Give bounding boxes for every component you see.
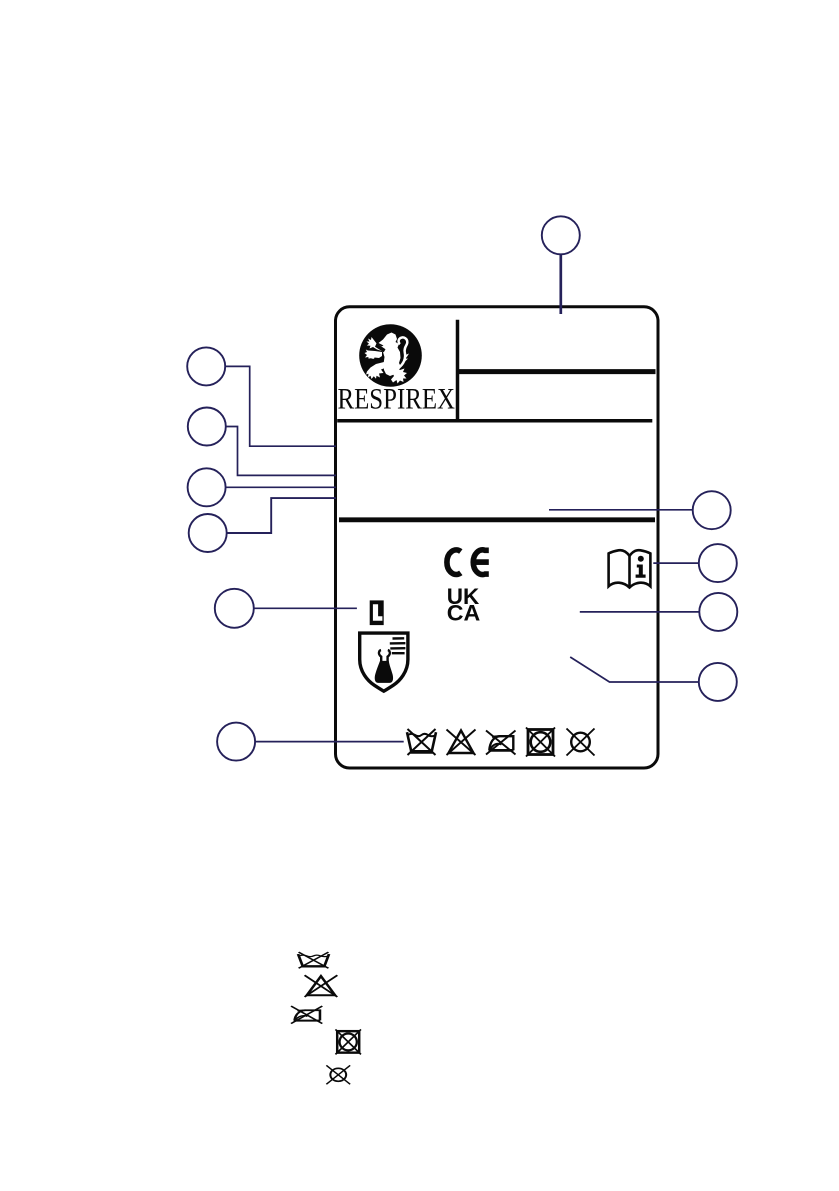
- bottom legend: do not tumble dry: [335, 1029, 361, 1054]
- callout line left 4: [227, 498, 336, 533]
- bottom legend: do not dry clean: [326, 1065, 350, 1084]
- booklet i dot: [638, 556, 644, 562]
- care symbols row inside label: [407, 729, 436, 755]
- horizontal divider 3 (full width): [339, 517, 655, 522]
- callout line right 1: [549, 509, 693, 511]
- callout circle top: [542, 216, 580, 254]
- chemical protection shield pictogram: [360, 633, 408, 691]
- vertical divider right of logo: [456, 320, 460, 423]
- callout circle left 6 (care row): [217, 723, 255, 761]
- CE mark: C: [447, 550, 461, 575]
- Respirex logo black roundel: [359, 324, 422, 387]
- callout circle left 5 (size): [215, 589, 254, 628]
- flask neck left: [379, 650, 381, 661]
- callout circle left 3: [188, 468, 226, 506]
- label outline (rounded rectangle): [336, 307, 659, 768]
- flask neck right: [388, 650, 390, 661]
- callout line left 2: [226, 427, 336, 476]
- consult instructions booklet icon: [609, 550, 651, 587]
- horizontal divider 1 (upper right cell): [458, 369, 656, 374]
- callout line left 1: [225, 366, 336, 446]
- booklet i stem: [636, 565, 646, 578]
- callout circle right 2: [699, 544, 737, 582]
- spray lines: [393, 637, 405, 640]
- callout circle right 4: [699, 663, 737, 701]
- Respirex lion rampant (white): [365, 333, 410, 384]
- bottom legend: do not iron: [291, 1006, 322, 1024]
- callout line left 6: [255, 741, 404, 743]
- callout line right 2: [653, 562, 699, 564]
- callout circle right 3: [699, 593, 737, 631]
- CE mark: E: [473, 550, 489, 575]
- callout circle left 2: [188, 408, 226, 446]
- flask body: [375, 661, 393, 683]
- horizontal divider 2 (full width): [337, 419, 652, 423]
- callout line left 3: [226, 486, 336, 488]
- callout circle left 4: [189, 514, 227, 552]
- callout circle right 1: [693, 491, 731, 529]
- svg-text:RESPIREX: RESPIREX: [338, 384, 456, 416]
- callout line right 4: [570, 657, 699, 682]
- callout line top: [559, 254, 562, 314]
- bottom legend: do not wash: [298, 952, 329, 968]
- callout line left 5: [254, 607, 357, 609]
- size letter L tab: [370, 600, 384, 625]
- callout circle left 1: [187, 347, 225, 385]
- svg-text:CA: CA: [447, 601, 481, 626]
- bottom legend: do not bleach: [305, 975, 338, 997]
- callout line right 3: [580, 611, 700, 613]
